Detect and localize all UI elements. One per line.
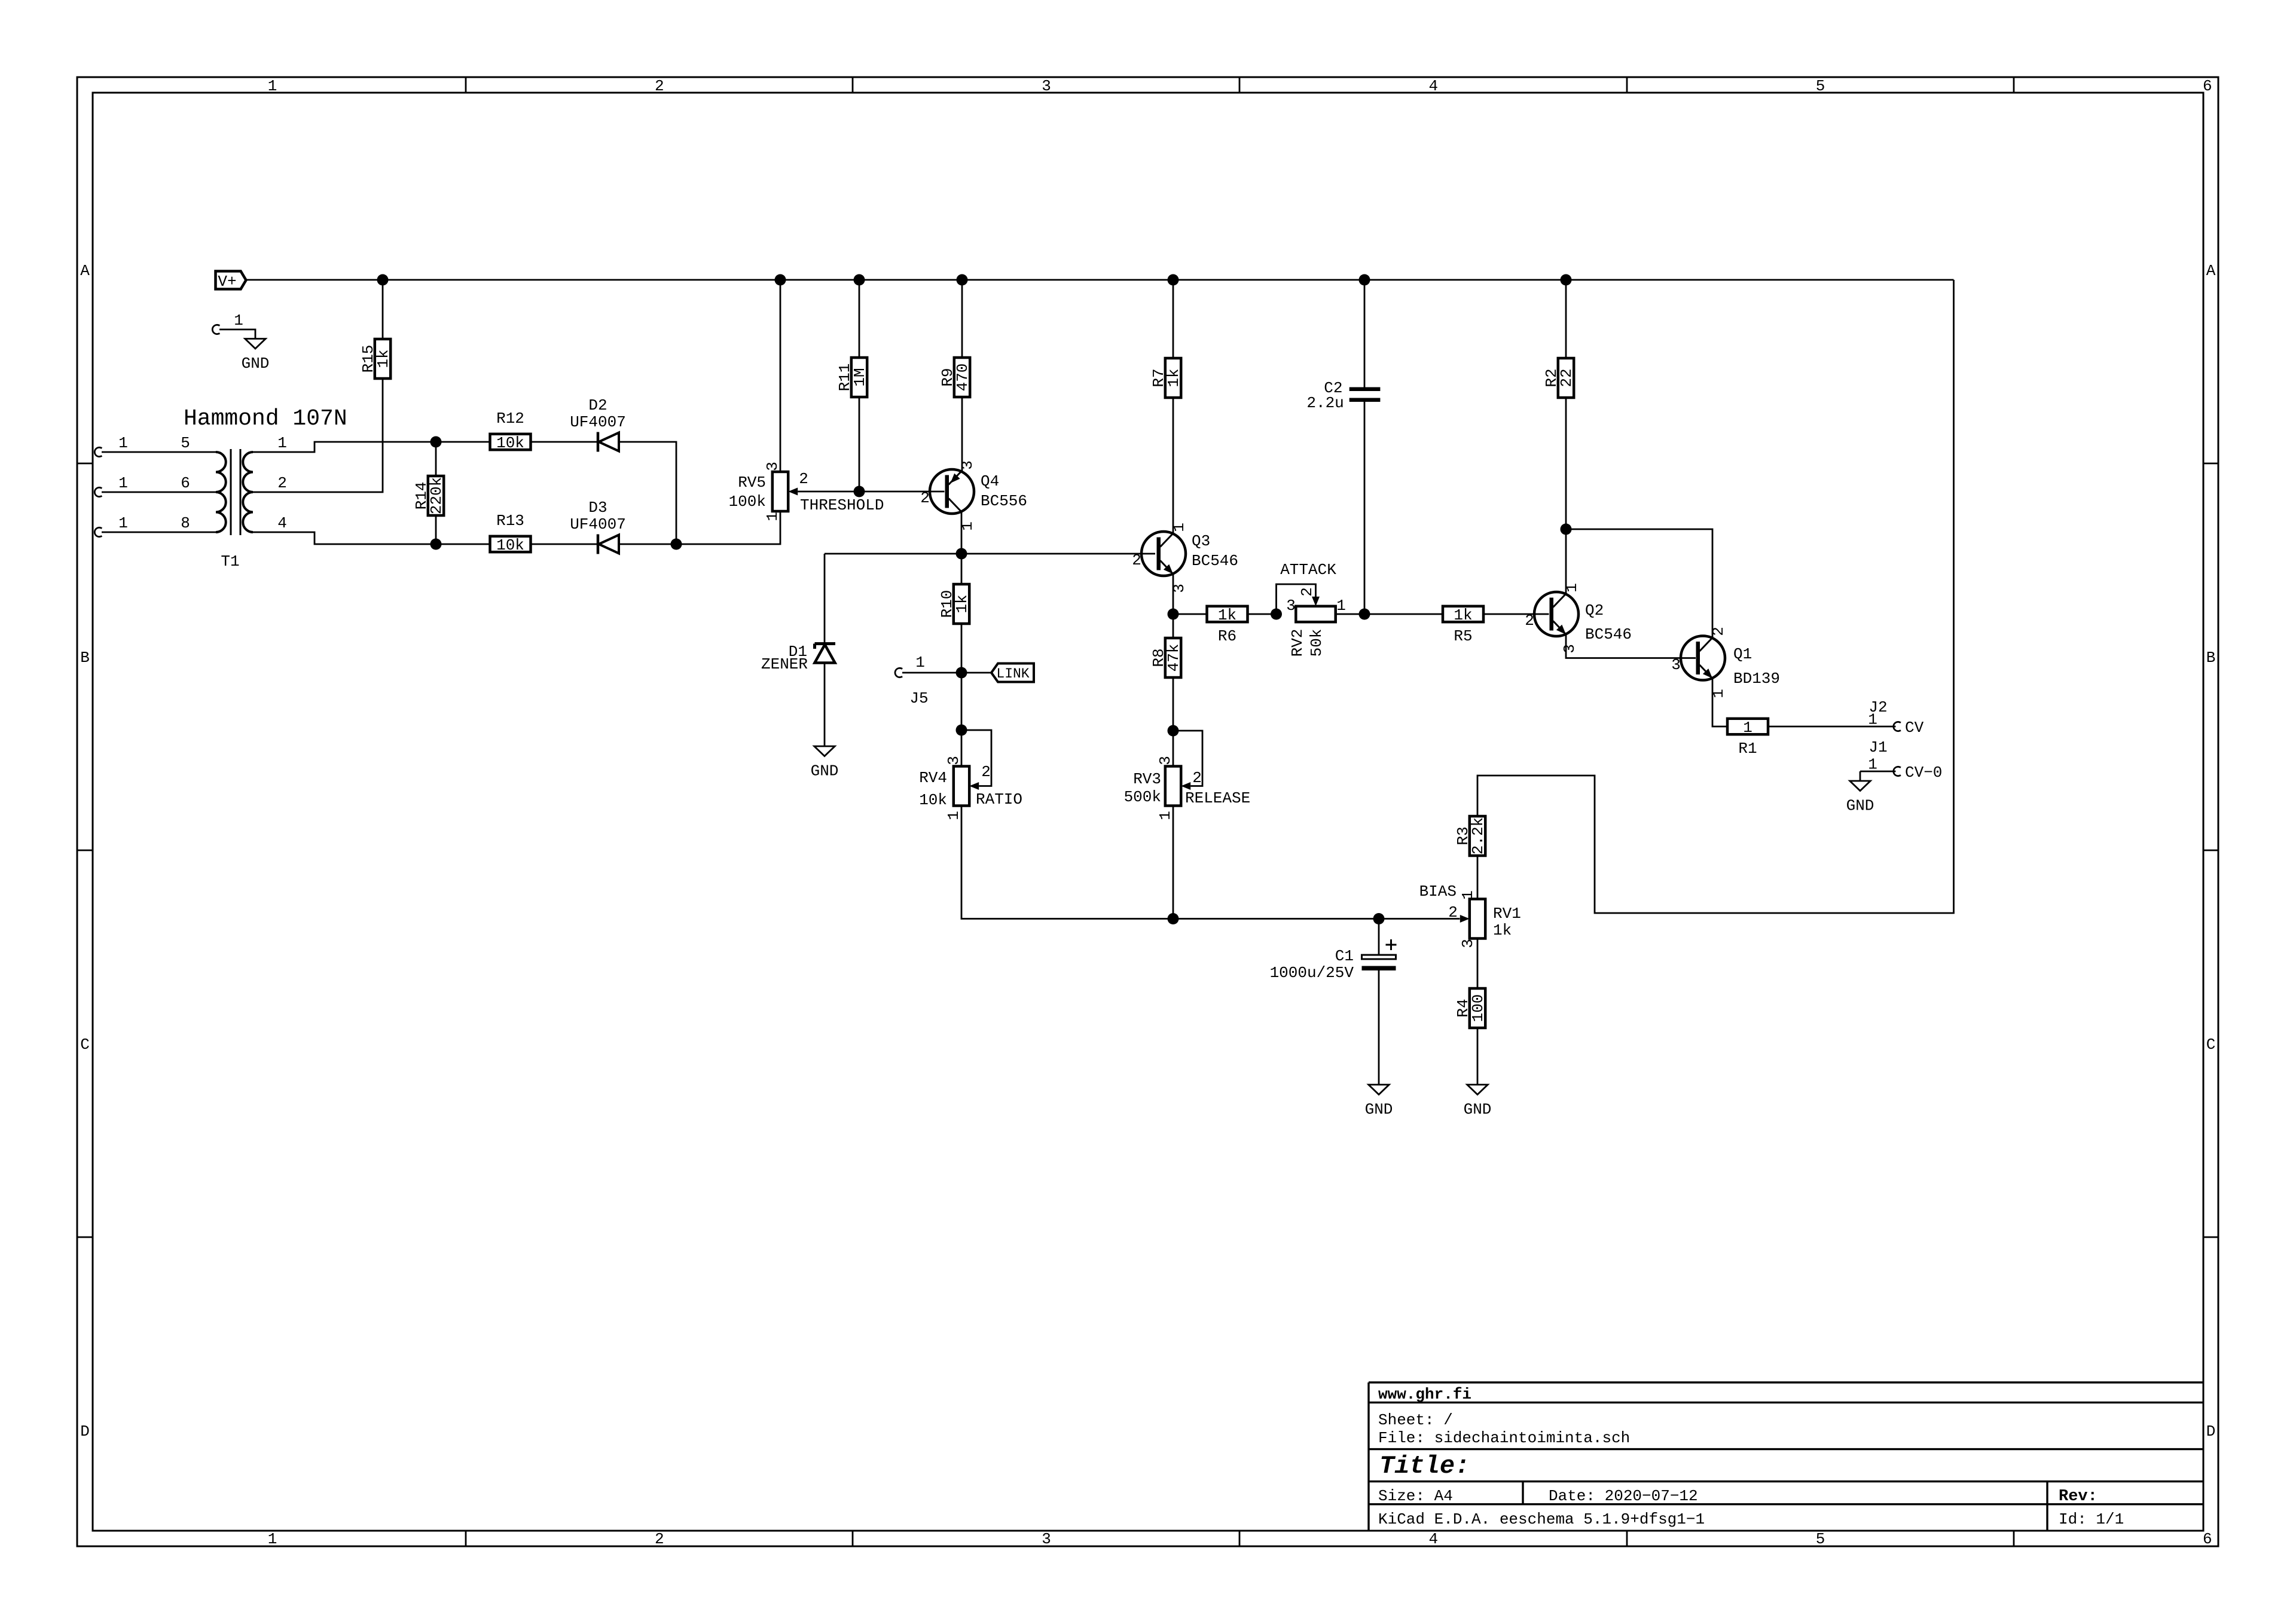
svg-text:BC556: BC556 — [981, 492, 1027, 510]
svg-text:220k: 220k — [428, 477, 445, 514]
junction V+ R11 — [854, 274, 865, 286]
wire R3 to RV1 — [1477, 856, 1479, 899]
junction V+ C2 — [1359, 274, 1370, 286]
wire Q3 to R6 — [1173, 613, 1207, 615]
svg-text:UF4007: UF4007 — [570, 413, 626, 431]
svg-text:RV2: RV2 — [1289, 629, 1306, 657]
svg-text:2: 2 — [920, 489, 930, 507]
transformer T1 — [181, 406, 347, 570]
svg-text:Hammond 107N: Hammond 107N — [184, 406, 347, 432]
wire J1 to GND — [1860, 771, 1861, 781]
wire R14 bottom — [435, 515, 437, 544]
svg-text:100: 100 — [1469, 994, 1487, 1022]
wire bias — [1173, 918, 1460, 920]
resistor R10 — [938, 584, 971, 624]
svg-text:2: 2 — [1132, 551, 1141, 569]
svg-text:3: 3 — [1042, 77, 1051, 95]
svg-text:J5: J5 — [909, 689, 928, 707]
title block rev — [2059, 1488, 2097, 1506]
svg-text:1: 1 — [118, 474, 128, 492]
ground GND top-left — [242, 339, 270, 373]
svg-text:2: 2 — [1298, 587, 1316, 597]
junction V+ RV5 — [775, 274, 786, 286]
wire C2 down — [1364, 401, 1366, 614]
wire Q2 emitter — [1566, 634, 1696, 658]
resistor R11 — [836, 358, 869, 397]
wire V+ to R15 — [382, 280, 384, 339]
svg-text:R1: R1 — [1738, 740, 1757, 758]
wire C1 to GND — [1378, 970, 1380, 1085]
svg-text:1: 1 — [118, 434, 128, 452]
svg-text:2: 2 — [1525, 612, 1534, 630]
svg-text:BC546: BC546 — [1192, 552, 1238, 570]
svg-text:Q1: Q1 — [1733, 645, 1752, 663]
svg-text:D3: D3 — [588, 499, 607, 517]
wire J1 — [1860, 771, 1896, 773]
wire V+ to R9 — [961, 280, 963, 358]
svg-text:1k: 1k — [953, 594, 971, 613]
svg-text:1: 1 — [764, 512, 781, 521]
svg-text:500k: 500k — [1124, 788, 1161, 806]
svg-text:GND: GND — [1464, 1101, 1492, 1119]
svg-text:3: 3 — [1286, 597, 1296, 615]
svg-text:UF4007: UF4007 — [570, 515, 626, 533]
svg-text:CV: CV — [1905, 719, 1924, 737]
diode D3 — [570, 499, 626, 554]
svg-text:1k: 1k — [1165, 368, 1183, 387]
svg-text:B: B — [2206, 649, 2216, 667]
wire Q4 emitter down — [961, 512, 963, 554]
svg-text:4: 4 — [1428, 1530, 1438, 1548]
potentiometer RV2 — [1280, 561, 1346, 657]
wire R4 to GND — [1477, 1028, 1479, 1085]
wire T1 pin5 — [102, 451, 216, 453]
svg-text:4: 4 — [277, 514, 287, 532]
wire right rail down — [1477, 280, 1954, 913]
wire Q3 collector — [1173, 398, 1174, 533]
potentiometer RV5 — [729, 462, 884, 521]
svg-text:RV1: RV1 — [1493, 905, 1521, 923]
svg-text:R13: R13 — [496, 512, 524, 530]
net label CV-0 — [1905, 764, 1942, 782]
title block id — [2059, 1510, 2124, 1528]
svg-text:1k: 1k — [1218, 606, 1236, 624]
capacitor C2 — [1306, 379, 1380, 412]
connector pin T1-5 — [94, 434, 128, 457]
svg-text:Sheet: /: Sheet: / — [1378, 1411, 1453, 1429]
connector pin J5 — [895, 654, 925, 677]
svg-text:1M: 1M — [851, 368, 869, 386]
wire R2 bottom — [1565, 398, 1567, 529]
svg-text:47k: 47k — [1165, 644, 1183, 672]
junction R2 node — [1561, 524, 1572, 535]
resistor R1 — [1727, 719, 1768, 758]
net label CV — [1905, 719, 1924, 737]
svg-text:C1: C1 — [1335, 947, 1354, 965]
svg-text:5: 5 — [181, 434, 190, 452]
svg-text:J1: J1 — [1868, 738, 1887, 756]
svg-text:1: 1 — [1459, 890, 1477, 900]
svg-text:10k: 10k — [919, 791, 947, 809]
svg-text:5: 5 — [1816, 1530, 1825, 1548]
svg-text:1: 1 — [268, 1530, 277, 1548]
title block size — [1378, 1487, 1453, 1505]
junction R11 wiper — [854, 486, 865, 497]
wire R13 to D3 — [531, 544, 599, 545]
svg-text:2: 2 — [799, 470, 808, 488]
wire to D1 — [824, 554, 826, 643]
svg-text:KiCad E.D.A. eeschema 5.1.9+d: KiCad E.D.A. eeschema 5.1.9+dfsg1−1 — [1378, 1510, 1705, 1528]
wire T1 pin8 — [102, 532, 216, 533]
title block company — [1378, 1385, 1471, 1403]
junction V+ R2 — [1561, 274, 1572, 286]
wire T1 pin4 out — [253, 532, 490, 544]
junction RV3 wiper tap — [1168, 725, 1179, 737]
transistor Q3 — [1132, 523, 1238, 593]
svg-text:1: 1 — [915, 654, 925, 671]
svg-text:10k: 10k — [496, 536, 524, 554]
junction Q4-R10 — [956, 548, 967, 560]
ground GND D1 — [811, 746, 839, 780]
wire Q3 emitter — [1173, 574, 1174, 614]
svg-text:2: 2 — [1709, 627, 1727, 636]
svg-text:ATTACK: ATTACK — [1280, 561, 1336, 579]
resistor R5 — [1443, 606, 1483, 645]
svg-text:3: 3 — [1042, 1530, 1051, 1548]
wire down to RV4 — [961, 673, 963, 765]
svg-text:100k: 100k — [729, 493, 766, 511]
wire V+ rail — [246, 279, 1954, 281]
junction Q3-R8 — [1168, 609, 1179, 620]
svg-text:2: 2 — [655, 77, 664, 95]
label J2 — [1868, 698, 1887, 716]
svg-text:R12: R12 — [496, 410, 524, 428]
svg-text:Q2: Q2 — [1585, 602, 1604, 619]
resistor R13 — [490, 512, 531, 554]
transistor Q4 — [920, 460, 1027, 531]
svg-text:ZENER: ZENER — [761, 655, 808, 673]
svg-text:BD139: BD139 — [1733, 670, 1780, 688]
wire T1 pin6 — [102, 492, 216, 493]
wire gnd connector — [219, 329, 255, 339]
wire J5 — [902, 672, 961, 674]
wire R14 top — [435, 442, 437, 476]
resistor R4 — [1454, 988, 1487, 1028]
connector pin T1-6 — [94, 474, 128, 497]
junction R14 bottom — [430, 539, 442, 550]
wire R2 node right — [1566, 529, 1712, 638]
svg-text:1: 1 — [234, 312, 243, 329]
potentiometer RV1 — [1419, 883, 1521, 948]
title block title — [1379, 1452, 1470, 1480]
wire RV3 bottom — [1173, 806, 1174, 919]
svg-text:2: 2 — [981, 763, 991, 781]
wire RV4 wiper loop — [961, 730, 991, 786]
resistor R9 — [939, 358, 972, 397]
potentiometer RV3 — [1124, 756, 1251, 820]
svg-text:GND: GND — [1365, 1101, 1393, 1119]
wire Q4 to R10 — [961, 554, 963, 584]
title block date — [1549, 1487, 1698, 1505]
svg-text:2.2k: 2.2k — [1469, 817, 1487, 854]
wire RV2 to C2 node — [1336, 613, 1364, 615]
svg-text:BIAS: BIAS — [1419, 883, 1457, 900]
junction RV4 wiper tap — [956, 725, 967, 736]
svg-text:www.ghr.fi: www.ghr.fi — [1378, 1385, 1471, 1403]
junction J5 LINK — [956, 667, 967, 679]
wire RV3 wiper loop — [1173, 731, 1202, 786]
wire C1 top — [1378, 919, 1380, 956]
svg-text:8: 8 — [181, 514, 190, 532]
svg-text:R5: R5 — [1454, 627, 1472, 645]
wire V+ to R2 — [1565, 280, 1567, 358]
junction C2 bottom — [1359, 609, 1370, 620]
wire mid row — [825, 553, 1155, 555]
resistor R7 — [1150, 358, 1183, 398]
svg-text:1k: 1k — [1493, 921, 1512, 939]
svg-text:6: 6 — [2203, 77, 2212, 95]
resistor R15 — [359, 339, 392, 378]
svg-text:T1: T1 — [221, 552, 239, 570]
wire R12 to D2 — [531, 441, 599, 443]
svg-text:470: 470 — [954, 364, 972, 392]
wire R9 to Q4 — [961, 397, 963, 471]
svg-text:3: 3 — [764, 462, 781, 471]
connector pin J2 — [1868, 711, 1901, 731]
power flag V+ — [216, 271, 246, 291]
title block sheet — [1378, 1411, 1453, 1429]
svg-text:V+: V+ — [218, 273, 236, 291]
svg-text:Size: A4: Size: A4 — [1378, 1487, 1453, 1505]
svg-text:2: 2 — [1192, 769, 1202, 787]
connector pin T1-8 — [94, 514, 128, 537]
wire T1 pin1 out — [253, 442, 490, 452]
svg-text:10k: 10k — [496, 434, 524, 452]
svg-text:3: 3 — [1671, 656, 1681, 674]
wire R1 to J2 — [1768, 726, 1896, 728]
junction RV3 bias — [1168, 913, 1179, 924]
svg-text:Title:: Title: — [1379, 1452, 1470, 1480]
svg-text:RV3: RV3 — [1133, 770, 1161, 788]
svg-text:1: 1 — [1156, 811, 1174, 820]
svg-text:3: 3 — [1561, 644, 1578, 654]
svg-text:1k: 1k — [1454, 606, 1472, 624]
svg-text:Rev:: Rev: — [2059, 1488, 2097, 1506]
wire D1 to GND — [824, 663, 826, 747]
svg-text:C: C — [80, 1036, 90, 1054]
svg-text:C: C — [2206, 1036, 2216, 1054]
svg-text:A: A — [2206, 262, 2216, 280]
svg-text:B: B — [80, 649, 90, 667]
wire R10 bottom — [961, 624, 963, 673]
junction C1 top — [1373, 913, 1385, 924]
svg-text:2: 2 — [655, 1530, 664, 1548]
wire V+ to C2 — [1364, 280, 1366, 387]
global label LINK — [991, 664, 1034, 682]
svg-text:6: 6 — [2203, 1530, 2212, 1548]
svg-text:1: 1 — [1868, 756, 1877, 774]
svg-text:CV−0: CV−0 — [1905, 764, 1942, 782]
svg-text:File: sidechaintoiminta.sch: File: sidechaintoiminta.sch — [1378, 1429, 1630, 1447]
svg-text:1: 1 — [945, 811, 963, 820]
svg-text:RV4: RV4 — [919, 769, 947, 787]
svg-text:3: 3 — [958, 460, 976, 470]
svg-text:1: 1 — [268, 77, 277, 95]
svg-text:2: 2 — [277, 474, 287, 492]
label J1 — [1868, 738, 1887, 756]
resistor R14 — [413, 476, 445, 515]
svg-text:BC546: BC546 — [1585, 625, 1632, 643]
svg-text:3: 3 — [1156, 756, 1174, 765]
svg-text:J2: J2 — [1868, 698, 1887, 716]
label J5 — [909, 689, 928, 707]
svg-text:THRESHOLD: THRESHOLD — [800, 496, 884, 514]
svg-text:D: D — [2206, 1422, 2216, 1440]
junction R14 top — [430, 436, 442, 448]
title block kicad — [1378, 1510, 1705, 1528]
title block file — [1378, 1429, 1630, 1447]
wire V+ to R11 — [859, 280, 860, 358]
junction V+ R7 — [1168, 274, 1179, 286]
svg-text:A: A — [80, 262, 90, 280]
transistor Q1 — [1671, 627, 1780, 698]
wire Q1 emitter — [1712, 679, 1727, 727]
svg-text:6: 6 — [181, 474, 190, 492]
junction RV2 pin3 — [1271, 609, 1282, 620]
svg-text:1: 1 — [1743, 719, 1752, 737]
wire D2 to corner — [619, 442, 677, 544]
junction diodes — [671, 539, 682, 550]
svg-text:1: 1 — [277, 434, 287, 452]
svg-text:LINK: LINK — [996, 666, 1029, 682]
title block borders — [1369, 1382, 2203, 1531]
diode D2 — [570, 396, 626, 452]
ground GND J1 — [1846, 781, 1874, 815]
wire R6 to RV2 — [1247, 613, 1276, 615]
wire Q2 collector — [1565, 529, 1567, 594]
wire to RV5 pin1 — [676, 511, 780, 544]
wire R5 to Q2 — [1483, 613, 1549, 615]
svg-text:1: 1 — [118, 514, 128, 532]
junction V+ R15 — [377, 274, 389, 286]
wire R11 bottom — [859, 397, 860, 492]
svg-text:RELEASE: RELEASE — [1185, 789, 1250, 807]
resistor R6 — [1207, 606, 1248, 645]
wire RV4 bottom — [961, 806, 1173, 919]
wire R8 bottom — [1173, 677, 1174, 766]
svg-text:D2: D2 — [588, 396, 607, 414]
wire RV1 to R4 — [1477, 939, 1479, 989]
svg-text:3: 3 — [945, 756, 963, 765]
svg-text:GND: GND — [242, 355, 270, 373]
wire V+ to R7 — [1173, 280, 1174, 358]
svg-text:RV5: RV5 — [738, 474, 766, 492]
svg-text:Id: 1/1: Id: 1/1 — [2059, 1510, 2124, 1528]
svg-text:22: 22 — [1558, 368, 1576, 387]
potentiometer RV4 — [919, 756, 1022, 820]
wire diodes to RV5 — [619, 544, 677, 545]
resistor R12 — [490, 410, 531, 452]
resistor R2 — [1543, 358, 1576, 398]
svg-text:4: 4 — [1428, 77, 1438, 95]
resistor R3 — [1454, 816, 1487, 856]
connector pin J1 — [1868, 756, 1901, 776]
wire LINK to junction — [961, 672, 991, 674]
svg-text:Q3: Q3 — [1192, 532, 1210, 550]
transistor Q2 — [1525, 583, 1632, 654]
ground GND R4 — [1464, 1085, 1492, 1119]
svg-text:2: 2 — [1448, 903, 1458, 921]
diode D1 zener — [761, 643, 835, 673]
svg-text:3: 3 — [1459, 939, 1477, 948]
svg-text:5: 5 — [1816, 77, 1825, 95]
svg-text:RATIO: RATIO — [976, 790, 1022, 808]
connector pin top-left — [212, 312, 243, 334]
svg-text:GND: GND — [811, 762, 839, 780]
svg-text:Q4: Q4 — [981, 472, 999, 490]
wire to R5 — [1364, 613, 1443, 615]
ground GND C1 — [1365, 1085, 1393, 1119]
svg-text:D: D — [80, 1422, 90, 1440]
wire R8 top — [1173, 614, 1174, 638]
svg-text:50k: 50k — [1308, 629, 1326, 657]
svg-text:2.2u: 2.2u — [1306, 394, 1344, 412]
wire RV2 wiper loop — [1277, 584, 1316, 614]
svg-text:GND: GND — [1846, 797, 1874, 815]
svg-text:R6: R6 — [1218, 627, 1236, 645]
resistor R8 — [1150, 638, 1183, 677]
svg-text:1: 1 — [1336, 597, 1346, 615]
svg-text:1000u/25V: 1000u/25V — [1270, 964, 1354, 982]
wire V+ to RV5 — [780, 280, 781, 472]
capacitor C1 — [1270, 939, 1397, 982]
junction V+ R9 — [957, 274, 968, 286]
wire R15 to T1 pin2 — [253, 378, 383, 492]
svg-text:Date: 2020−07−12: Date: 2020−07−12 — [1549, 1487, 1698, 1505]
wire RV5 wiper — [798, 491, 944, 493]
svg-text:1k: 1k — [374, 349, 392, 368]
